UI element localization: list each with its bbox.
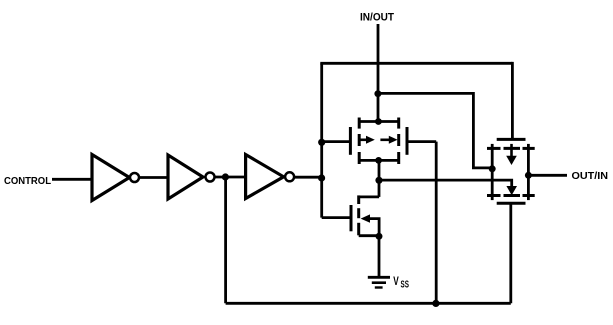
node F dot (middle gate bottom) — [375, 157, 382, 164]
transistor Q2 (NMOS, right of middle gate) — [380, 118, 436, 165]
transistor Q5 (NMOS, bottom of right gate) — [487, 196, 535, 204]
wire middle gate bottom bar — [359, 159, 399, 162]
node A junction dot (U2 output) — [222, 173, 229, 180]
node H dot (Q3 source/body tie) — [376, 233, 383, 240]
wire U2 to U3 — [214, 176, 245, 179]
wire right gate left stub — [491, 144, 494, 200]
wire U1 to U2 — [139, 176, 168, 179]
wire riser to Q4 gate — [511, 62, 514, 139]
node K dot (bottom bus / Q2 gate riser) — [432, 300, 439, 307]
wire Q3 source to ground — [378, 236, 381, 276]
svg-text:V: V — [393, 274, 399, 288]
inverter U2 — [168, 155, 215, 199]
inverter U3 — [246, 155, 295, 199]
node J dot (right gate right node) — [525, 172, 532, 179]
wire bottom bus — [226, 302, 511, 305]
wire well bus to Q5 body arrow — [379, 180, 512, 187]
wire top control-bar bus — [320, 62, 512, 65]
wire vertical control-bar bus (left riser) — [320, 63, 323, 217]
wire middle gate top bar — [359, 120, 399, 123]
transistor Q4 (PMOS, top of right gate) — [487, 139, 535, 165]
wire Q5 gate riser down to bottom bus — [509, 203, 512, 303]
wire Q2 gate riser down to bottom bus — [435, 142, 438, 304]
node D junction dot (IN/OUT branch) — [374, 90, 381, 97]
wire IN/OUT branch to right switch — [378, 93, 492, 167]
wire U3 output to node B — [294, 176, 322, 179]
wire right gate right stub — [527, 144, 530, 200]
wire middle-bottom node riser (TG bottom to Q3 drain) — [378, 160, 381, 197]
transistor Q5 body arrow — [506, 186, 517, 195]
inverter U1 — [92, 155, 139, 201]
node I dot (right gate left node) — [489, 165, 496, 172]
wire OUT/IN — [528, 174, 567, 177]
node E dot (middle gate top) — [375, 118, 382, 125]
node C junction dot (gate tap of Q1) — [318, 139, 325, 146]
transistor Q3 (NMOS to VSS) — [322, 195, 379, 236]
node G dot (well bus tap) — [375, 177, 382, 184]
wire IN/OUT vertical — [377, 24, 380, 122]
node B junction dot — [318, 174, 325, 181]
ground VSS symbol — [368, 277, 390, 287]
svg-text:OUT/IN: OUT/IN — [572, 171, 609, 182]
svg-text:CONTROL: CONTROL — [4, 176, 51, 187]
wire node A down to bottom bus — [224, 177, 227, 303]
wire control input to U1 — [52, 178, 92, 181]
transistor Q1 (PMOS, left of middle gate) — [322, 118, 375, 165]
svg-text:IN/OUT: IN/OUT — [360, 12, 394, 24]
svg-text:SS: SS — [401, 280, 410, 291]
